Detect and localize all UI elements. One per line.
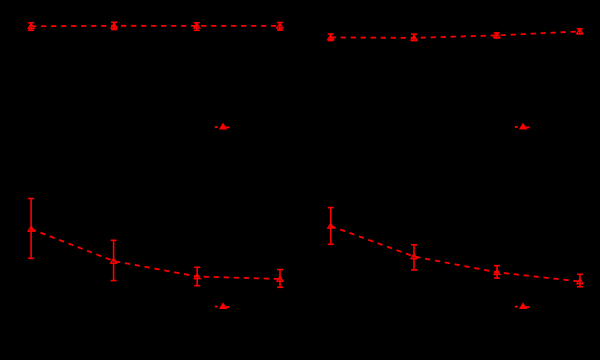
TR point 1 error bar [328, 34, 334, 41]
top-right legend line sample [515, 126, 530, 128]
BL point 2 marker (open triangle) [111, 258, 117, 263]
BR point 1 marker (open triangle) [328, 223, 334, 228]
bottom-left legend marker (filled triangle) [220, 304, 226, 309]
series TL dashed line [31, 25, 280, 28]
bottom-right legend line sample [515, 306, 530, 308]
TL point 1 error bar [28, 23, 34, 31]
TR point 2 error bar [411, 34, 417, 41]
TR point 3 error bar [494, 33, 500, 38]
BL point 1 error bar [28, 199, 34, 259]
BR point 3 error bar [494, 266, 500, 279]
BR point 4 marker (open triangle) [577, 279, 583, 284]
series TR dashed line [331, 31, 580, 38]
BL point 4 error bar [277, 270, 283, 288]
TL point 2 error bar [111, 22, 117, 29]
BR point 2 marker (open triangle) [411, 254, 417, 259]
TR point 1 marker (open triangle) [328, 35, 334, 40]
top-left legend marker (filled triangle) [220, 124, 226, 129]
bottom-left legend line sample [215, 306, 230, 308]
TL point 3 error bar [194, 23, 200, 31]
series BL dashed line [31, 229, 280, 279]
TL point 2 marker (open triangle) [111, 23, 117, 28]
BR point 1 error bar [328, 208, 334, 245]
BR point 2 error bar [411, 245, 417, 270]
BL point 3 error bar [194, 267, 200, 285]
BR point 4 error bar [577, 274, 583, 287]
TL point 4 error bar [277, 23, 283, 31]
BL point 4 marker (open triangle) [277, 276, 283, 281]
BL point 3 marker (open triangle) [194, 274, 200, 279]
BR point 3 marker (open triangle) [494, 270, 500, 275]
BL point 2 error bar [111, 240, 117, 280]
TL point 4 marker (open triangle) [277, 23, 283, 28]
series BR dashed line [331, 226, 580, 282]
bottom-right legend marker (filled triangle) [520, 304, 526, 309]
top-left legend line sample [215, 126, 230, 128]
TR point 4 error bar [577, 29, 583, 34]
TL point 1 marker (open triangle) [28, 24, 34, 29]
TR point 4 marker (open triangle) [577, 29, 583, 34]
TR point 3 marker (open triangle) [494, 33, 500, 38]
BL point 1 marker (open triangle) [28, 226, 34, 231]
TR point 2 marker (open triangle) [411, 35, 417, 40]
TL point 3 marker (open triangle) [194, 23, 200, 28]
top-right legend marker (filled triangle) [520, 124, 526, 129]
